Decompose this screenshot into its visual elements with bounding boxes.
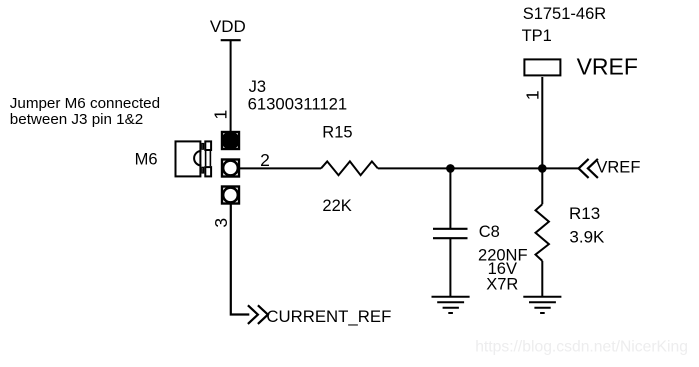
wire VDD to J3 pin 1 (230, 40, 232, 132)
wire R13 to ground (541, 261, 543, 297)
wire node A to node B (450, 167, 542, 169)
resistor R13 (536, 204, 549, 261)
jumper M6 cap bottom box (205, 167, 211, 176)
svg-text:CURRENT_REF: CURRENT_REF (266, 307, 391, 326)
svg-text:J3: J3 (249, 78, 266, 96)
svg-text:3: 3 (211, 218, 231, 228)
jumper M6 cap top box (205, 141, 211, 150)
J3 pad 2 (222, 160, 239, 177)
resistor R15 (321, 161, 378, 175)
note text: Jumper M6 connected between J3 pin 1&2 (10, 95, 160, 128)
junction node B (538, 164, 547, 173)
jumper M6 handle arc (194, 151, 201, 166)
wire node B down to R13 (541, 168, 543, 204)
svg-text:M6: M6 (135, 151, 158, 169)
wire R15 to node A (378, 167, 451, 169)
capacitor C8 plates (433, 229, 468, 238)
svg-text:VREF: VREF (577, 54, 638, 80)
svg-text:61300311121: 61300311121 (248, 94, 348, 113)
ground (below C8) (432, 297, 470, 313)
wire J3 pin 2 to R15 (240, 167, 322, 169)
wire node A down to C8 (449, 168, 451, 228)
test point TP1 body (524, 59, 560, 75)
svg-text:S1751-46R: S1751-46R (523, 5, 607, 23)
svg-text:1: 1 (211, 110, 231, 120)
wire J3 pin 3 to CURRENT_REF (231, 204, 250, 315)
jumper M6 bottom notch (202, 167, 204, 173)
svg-text:https://blog.csdn.net/NicerKin: https://blog.csdn.net/NicerKing (475, 339, 688, 356)
wire node B up to TP1 (541, 77, 543, 168)
svg-text:R13: R13 (569, 204, 600, 223)
J3 pad 1 (filled) (221, 131, 239, 149)
svg-text:2: 2 (260, 150, 270, 170)
net label CURRENT_REF chevron (248, 305, 268, 324)
wire C8 to ground (449, 238, 451, 297)
jumper M6 top notch (202, 144, 204, 150)
jumper M6 cap middle channel (206, 151, 211, 166)
svg-text:VDD: VDD (210, 17, 246, 36)
svg-text:C8: C8 (479, 223, 500, 241)
svg-text:between J3 pin 1&2: between J3 pin 1&2 (10, 111, 143, 128)
svg-text:3.9K: 3.9K (569, 227, 605, 246)
svg-text:VREF: VREF (596, 159, 640, 177)
svg-text:Jumper M6 connected: Jumper M6 connected (10, 95, 160, 112)
power symbol VDD (210, 17, 246, 40)
svg-text:TP1: TP1 (522, 27, 552, 45)
net label VREF chevron (579, 159, 598, 178)
jumper M6 body (176, 141, 201, 176)
svg-text:X7R: X7R (486, 275, 518, 293)
svg-text:1: 1 (522, 90, 542, 100)
svg-text:R15: R15 (322, 123, 352, 141)
J3 pad 3 (222, 187, 239, 204)
junction node A (446, 164, 455, 173)
svg-text:22K: 22K (322, 197, 351, 215)
wire node B to VREF chevron (542, 167, 578, 169)
ground (below R13) (523, 297, 561, 313)
